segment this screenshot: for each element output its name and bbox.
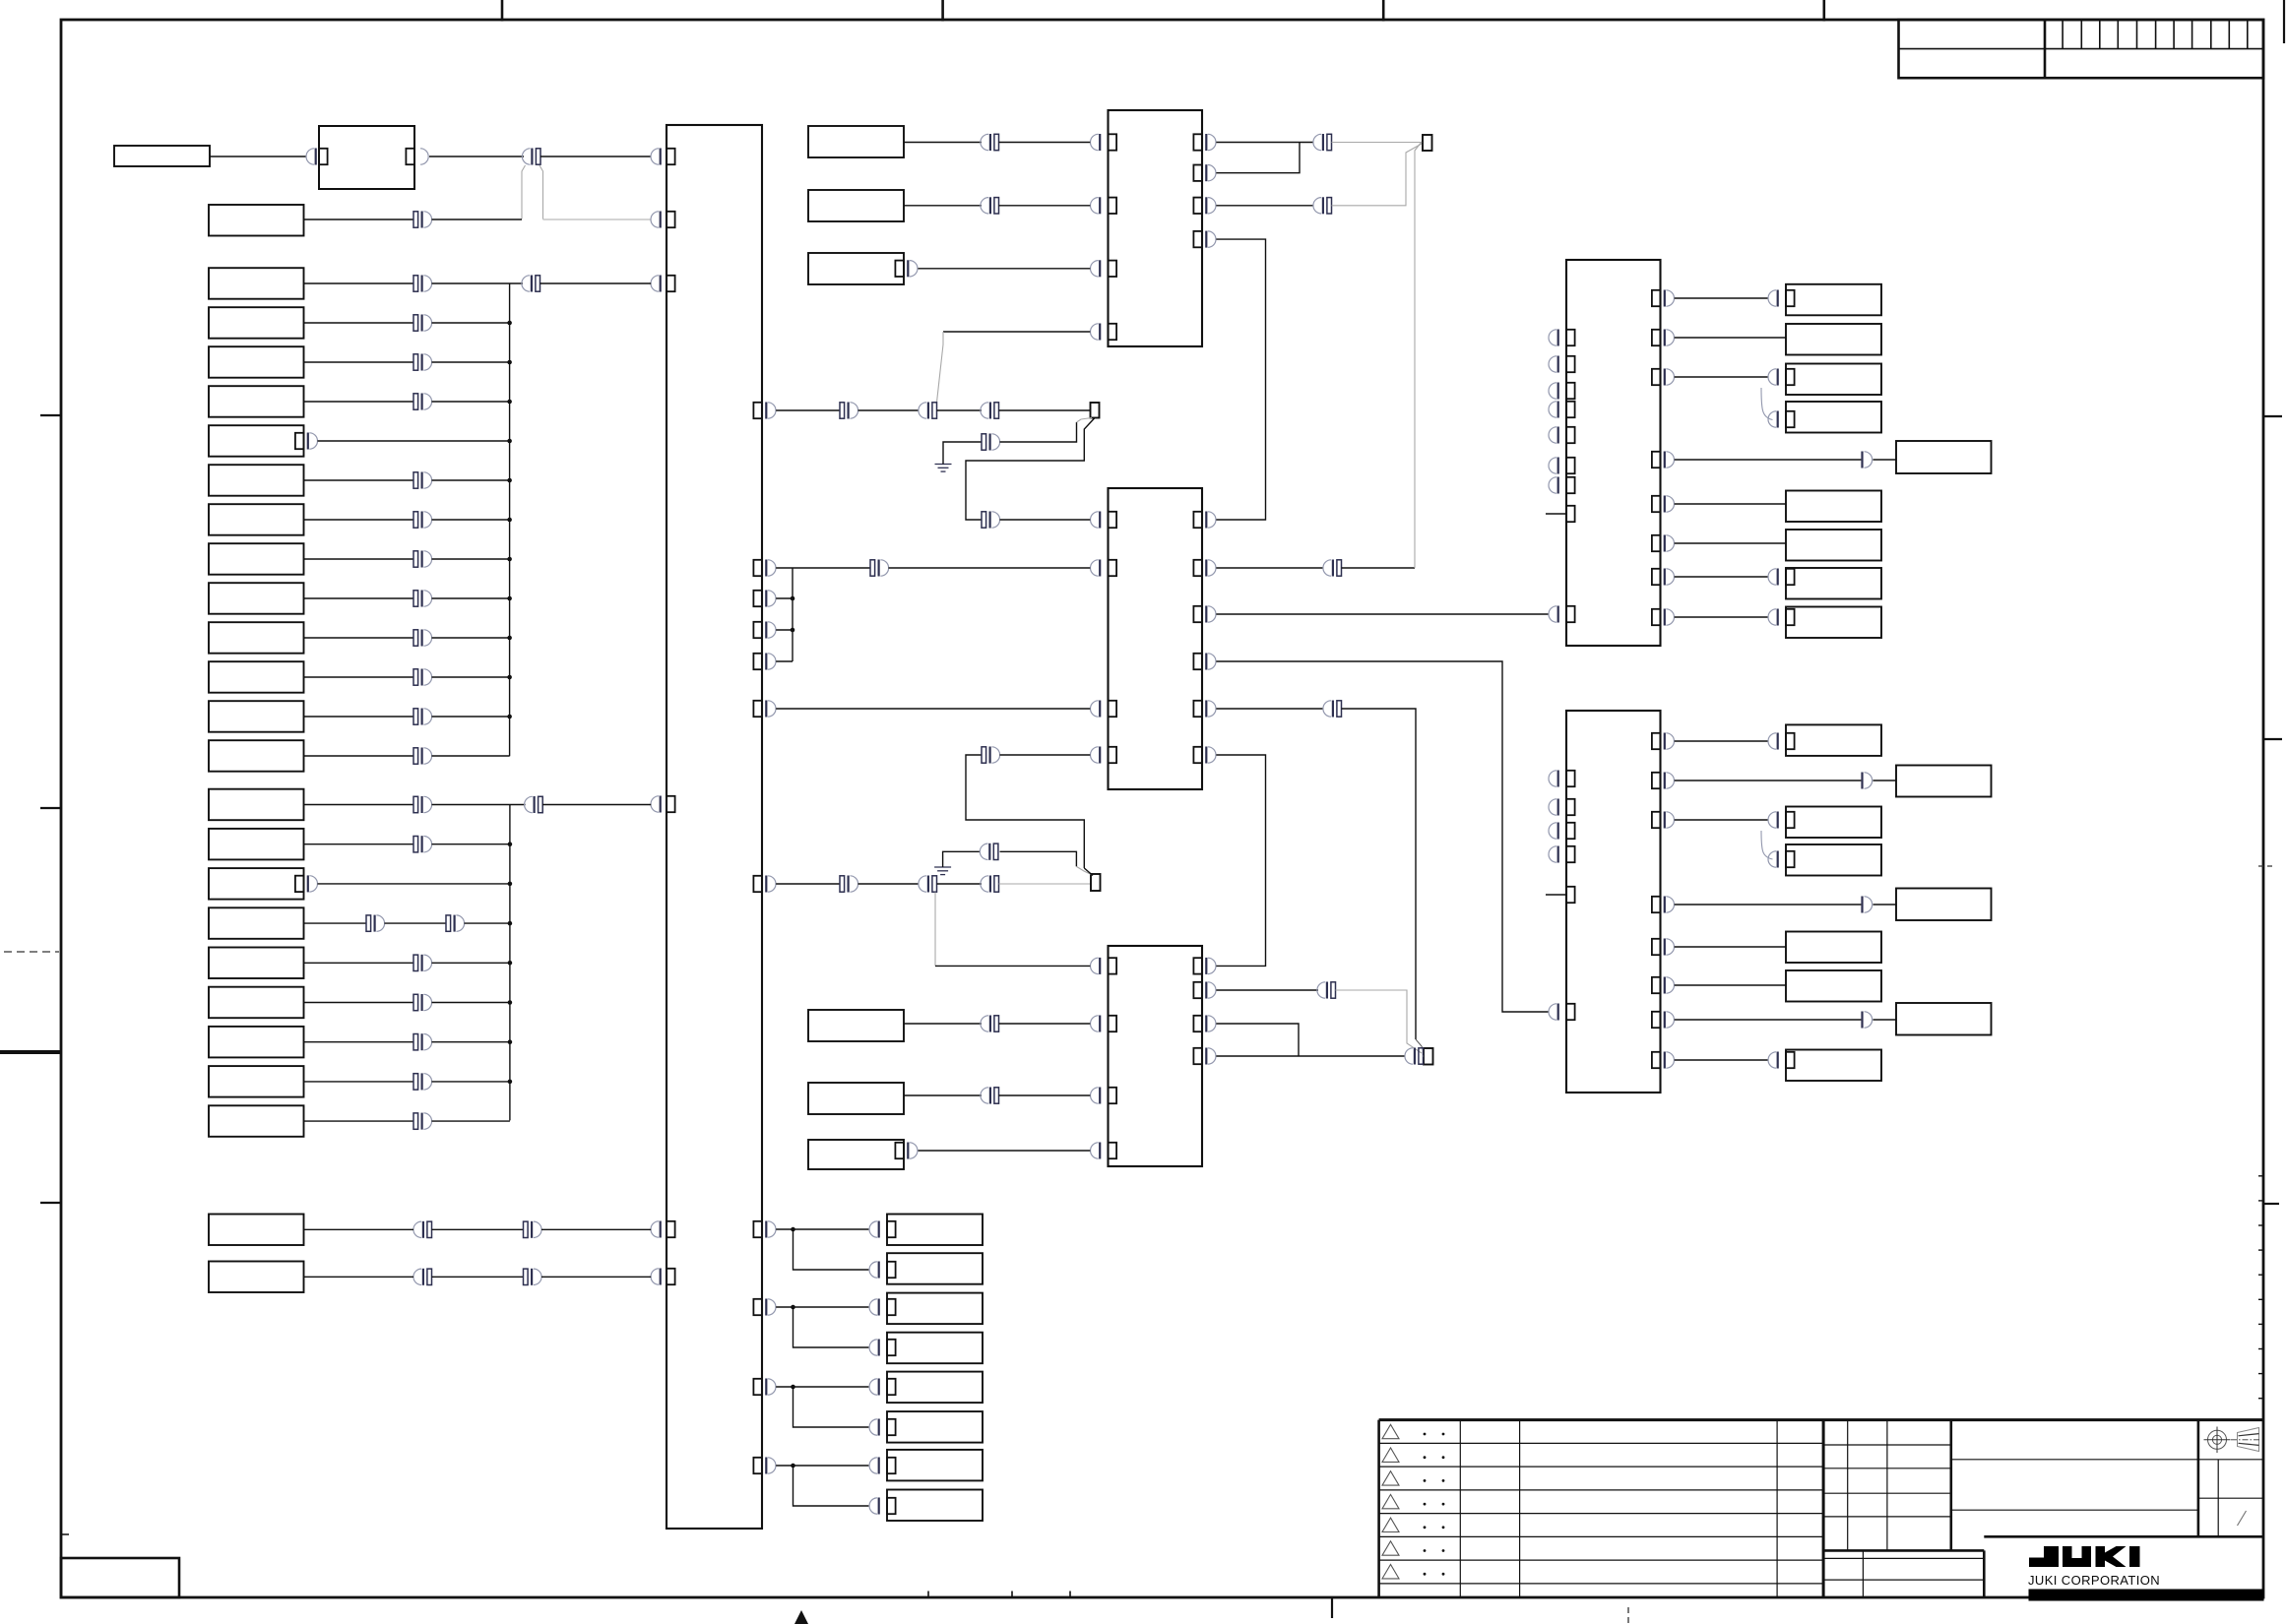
connector bar plug: [1861, 897, 1863, 913]
bus wire vertical: [509, 805, 511, 1121]
label box H9 pin: [1786, 1052, 1795, 1068]
wire gray: [1332, 144, 1423, 206]
TB1 pin right: [753, 701, 762, 717]
wire: [304, 755, 414, 757]
TB1 pin right: [753, 1221, 762, 1237]
wire: [776, 883, 840, 885]
box pin right: [295, 433, 304, 449]
U2 pin right: [1193, 747, 1202, 763]
label box K3 pin: [887, 1299, 896, 1315]
wire: [429, 156, 524, 157]
title cells row line: [1951, 1509, 2198, 1511]
junction: [791, 1227, 795, 1232]
U2 pin right: [1193, 654, 1202, 669]
U1 pin right: [1193, 198, 1202, 214]
module box M1: [319, 126, 414, 189]
label box F1: [808, 1010, 904, 1041]
branch wire: [794, 1387, 869, 1427]
branch wire: [794, 1229, 869, 1270]
label box E3: [808, 253, 904, 284]
wire: [540, 282, 652, 284]
J1 pin right: [1652, 369, 1661, 385]
TB1 pin right: [753, 1458, 762, 1473]
wire: [432, 401, 510, 403]
J2 pin right: [1652, 897, 1661, 912]
wire: [304, 637, 414, 639]
connector pair: [413, 591, 418, 606]
label box B7: [209, 504, 304, 535]
label box H7: [1786, 970, 1881, 1002]
connector plug into module: [315, 149, 317, 165]
lower mini table right edge: [1983, 1550, 1986, 1597]
connector pair: [413, 994, 418, 1010]
frame tick bottom: [1331, 1597, 1333, 1618]
frame tick top: [501, 0, 504, 22]
label box C8: [209, 1066, 304, 1097]
label box K1: [887, 1215, 983, 1246]
wire: [1342, 567, 1416, 569]
J2 pin left floating: [1566, 771, 1575, 786]
slash mark: [2238, 1511, 2247, 1526]
label box A1: [114, 146, 210, 166]
wire: [432, 755, 510, 757]
J2 pin right: [1652, 812, 1661, 828]
TB1 pin right: [753, 622, 762, 638]
label box H1: [1786, 724, 1881, 756]
connector bar plug: [1861, 1012, 1863, 1029]
label box K8 pin: [887, 1498, 896, 1514]
J1 pin right: [1652, 330, 1661, 345]
frame tick right: [2263, 1203, 2279, 1205]
wire: [1216, 142, 1313, 144]
label box E2: [808, 190, 904, 221]
wire: [1675, 503, 1786, 505]
label box C9: [209, 1105, 304, 1137]
J2 pin right: [1652, 1012, 1661, 1028]
junction: [791, 1464, 795, 1468]
label box H3 pin: [1786, 812, 1795, 828]
label box B8: [209, 543, 304, 575]
wire: [432, 1276, 524, 1278]
corner box bottom-left: [61, 1558, 179, 1597]
label box K7: [887, 1450, 983, 1481]
title block top edge: [1379, 1418, 2263, 1421]
TB1 pin left: [667, 1269, 675, 1284]
wire: [999, 1023, 1091, 1025]
U1 pin left: [1109, 198, 1117, 214]
wire: [304, 1228, 414, 1230]
wire: [999, 409, 1091, 411]
label box B3: [209, 346, 304, 378]
connector pair: [427, 1221, 432, 1237]
connector pair: [413, 669, 418, 685]
wire gray riser: [934, 893, 936, 967]
label box C5: [209, 948, 304, 979]
label box H1 pin: [1786, 733, 1795, 749]
junction: [508, 1080, 513, 1085]
connector pair: [366, 915, 371, 931]
wire: [304, 322, 414, 324]
wire: [1873, 459, 1897, 461]
J1 pin left floating: [1566, 356, 1575, 372]
junction: [508, 961, 513, 966]
junction: [507, 360, 512, 365]
U1 pin right: [1193, 231, 1202, 247]
J1 pin left floating: [1566, 477, 1575, 493]
title block divider: [1822, 1420, 1825, 1597]
junction: [507, 400, 512, 405]
wire: [776, 597, 793, 599]
label box B4: [209, 386, 304, 417]
wire: [304, 519, 414, 521]
projection symbol cone: [2231, 1428, 2261, 1452]
wire gray slant: [1076, 866, 1092, 874]
wire: [432, 479, 510, 481]
connector pair: [413, 551, 418, 567]
wire: [966, 418, 1095, 521]
connector pair: [413, 315, 418, 331]
label box H6: [1786, 932, 1881, 964]
J2 pin left wired: [1566, 1004, 1575, 1020]
wire: [1216, 143, 1300, 173]
bottom centre triangle marker: [794, 1610, 808, 1624]
paper mark right: [2283, 0, 2285, 43]
U3 pin left: [1109, 958, 1117, 973]
connector pair: [994, 1016, 999, 1031]
connector pair: [1327, 198, 1332, 214]
label box B10: [209, 622, 304, 654]
wire: [776, 660, 793, 662]
label box B11: [209, 661, 304, 693]
connector pair: [413, 955, 418, 970]
title block JUKI area top: [1984, 1535, 2263, 1538]
wire: [904, 205, 982, 207]
connector pair: [993, 843, 998, 859]
connector pair: [982, 512, 986, 528]
title cells divider: [2197, 1420, 2200, 1537]
label box K1 pin: [887, 1221, 896, 1237]
label box B6: [209, 465, 304, 496]
connector pair CN-A: [536, 149, 540, 164]
TB1 pin left: [667, 1221, 675, 1237]
connector pair: [1331, 982, 1336, 998]
wire gray vertical: [1415, 142, 1422, 568]
bus wire vertical: [792, 568, 794, 661]
label box K6 pin: [887, 1419, 896, 1435]
wire: [541, 1228, 651, 1230]
branch curve: [1761, 831, 1773, 859]
wire: [889, 567, 1091, 569]
U3 pin left: [1109, 1016, 1117, 1031]
junction: [507, 596, 512, 601]
wire: [432, 519, 510, 521]
frame tick top: [941, 0, 944, 22]
title block black bar: [2029, 1590, 2263, 1600]
F3 pin right: [895, 1143, 904, 1158]
wire: [999, 142, 1091, 144]
wire gray drop: [522, 165, 526, 219]
E3 pin right: [895, 261, 904, 277]
label box C2: [209, 829, 304, 860]
wire: [432, 1002, 510, 1004]
wire: [919, 268, 1091, 270]
JUKI logo: [2029, 1546, 2140, 1567]
label box G4 pin: [1786, 411, 1795, 427]
header row divider: [1899, 48, 2264, 50]
connector plug P2: [1424, 1048, 1433, 1065]
wire gray drop: [540, 165, 543, 219]
wire: [904, 1094, 982, 1096]
wire: [776, 1465, 868, 1467]
connector plug module output: [420, 149, 428, 164]
U1 pin right: [1193, 134, 1202, 150]
wire: [432, 1081, 510, 1083]
J2 pin right: [1652, 773, 1661, 788]
label box K4 pin: [887, 1340, 896, 1355]
wire: [776, 1386, 868, 1388]
junction: [507, 636, 512, 641]
frame tick bottom: [927, 1592, 929, 1598]
U2 pin left: [1109, 512, 1117, 528]
TB1 pin left: [667, 212, 675, 227]
wire: [304, 1120, 414, 1122]
TB1 pin right: [753, 591, 762, 606]
connector box U2: [1109, 488, 1203, 789]
frame tick top: [1382, 0, 1385, 22]
lower mini table rows: [1823, 1550, 1984, 1597]
U2 pin right: [1193, 560, 1202, 576]
revision date dots: [1424, 1433, 1445, 1576]
TB1 pin right: [753, 876, 762, 892]
revision table columns: [1460, 1420, 1777, 1597]
wire: [304, 716, 414, 718]
connector pair: [413, 276, 418, 291]
wire: [776, 409, 840, 411]
connector pair: [1327, 134, 1332, 150]
wire: [304, 361, 414, 363]
wire: [966, 755, 1084, 868]
label box B9: [209, 583, 304, 614]
junction: [508, 1039, 513, 1044]
wire: [776, 708, 1090, 710]
connector pair: [994, 134, 999, 150]
module pin left: [319, 149, 328, 164]
label box K2 pin: [887, 1262, 896, 1278]
wire: [1675, 459, 1862, 461]
wire: [1675, 337, 1786, 339]
junction: [507, 321, 512, 326]
connector pair: [982, 747, 986, 763]
label box H2 wide: [1896, 766, 1992, 797]
wire: [1873, 780, 1897, 781]
J2 pin right: [1652, 977, 1661, 993]
wire: [1084, 868, 1093, 876]
junction: [507, 715, 512, 719]
U2 pin left: [1109, 701, 1117, 717]
connector pair: [413, 354, 418, 370]
label box G6: [1786, 491, 1881, 523]
wire: [540, 156, 651, 157]
header ruled cells: [2063, 20, 2248, 49]
middle table bottom edge: [1823, 1549, 1984, 1552]
label box K5: [887, 1372, 983, 1404]
connector pair: [413, 472, 418, 488]
connector pair: [446, 915, 451, 931]
ground: [935, 464, 952, 466]
wire: [1000, 754, 1091, 756]
wire: [432, 962, 510, 964]
module pin right: [406, 149, 414, 164]
U3 pin left: [1109, 1143, 1117, 1158]
frame dashed mark bottom: [1627, 1607, 1629, 1624]
wire: [304, 922, 367, 924]
wire: [776, 567, 870, 569]
label box G2: [1786, 324, 1881, 355]
wire: [1675, 904, 1862, 906]
wire: [542, 804, 651, 806]
wire: [432, 637, 510, 639]
header block outline: [1899, 20, 2264, 78]
wire: [1216, 205, 1313, 207]
label box K5 pin: [887, 1379, 896, 1395]
J1 pin left floating: [1566, 402, 1575, 417]
connector pair: [413, 394, 418, 409]
frame dashed mark right: [2258, 865, 2275, 867]
wire gray: [1336, 990, 1423, 1053]
U3 pin right: [1193, 1048, 1202, 1064]
label box F2: [808, 1083, 904, 1114]
branch wire: [794, 1466, 869, 1506]
revision triangles: [1382, 1424, 1399, 1579]
connector pair: [524, 1221, 529, 1237]
wire: [1873, 904, 1897, 906]
junction: [508, 882, 513, 887]
frame tick top: [1823, 0, 1826, 22]
label box G9: [1786, 607, 1881, 639]
U2 pin right: [1193, 606, 1202, 622]
junction: [507, 675, 512, 680]
label box G8: [1786, 568, 1881, 599]
J1 pin right: [1652, 290, 1661, 306]
label box B1: [209, 268, 304, 299]
wire gray: [1332, 142, 1423, 144]
connector pair: [932, 403, 937, 418]
label box A2: [209, 205, 304, 236]
label box H5 wide: [1896, 889, 1992, 921]
label box K3: [887, 1293, 983, 1325]
TB1 pin right: [753, 1299, 762, 1315]
connector pair: [982, 434, 986, 450]
wire: [304, 1041, 414, 1043]
wire: [304, 843, 414, 845]
connector bar plug: [1861, 773, 1863, 789]
middle table right edge: [1950, 1420, 1953, 1551]
bus wire vertical: [509, 283, 511, 756]
U1 pin left: [1109, 324, 1117, 340]
junction: [791, 1305, 795, 1310]
connector pair: [413, 630, 418, 646]
label box C4: [209, 907, 304, 939]
wire: [432, 322, 510, 324]
connector pair: [1419, 1048, 1424, 1064]
connector box J2: [1566, 711, 1661, 1093]
J1 pin right: [1652, 569, 1661, 585]
label box G1 pin: [1786, 290, 1795, 306]
wire gray: [543, 219, 652, 220]
wire: [858, 409, 919, 411]
connector pair: [413, 1074, 418, 1090]
wire: [304, 479, 414, 481]
J2 pin left floating: [1566, 823, 1575, 839]
wire: [776, 629, 793, 631]
connector pair: [413, 212, 418, 227]
U1 pin left: [1109, 261, 1117, 277]
middle table columns: [1848, 1420, 1887, 1551]
label box F3: [808, 1140, 904, 1169]
frame tick left: [40, 414, 61, 416]
label box H4 pin: [1786, 851, 1795, 867]
connector pair: [413, 512, 418, 528]
wire: [943, 331, 1090, 333]
frame tick left: [40, 807, 61, 809]
label box H4: [1786, 844, 1881, 876]
wire: [304, 962, 414, 964]
TB1 pin left: [667, 149, 675, 164]
connector box U3: [1109, 946, 1203, 1166]
wire: [1216, 661, 1548, 1012]
wire: [1675, 376, 1768, 378]
revision table rows: [1379, 1443, 1824, 1584]
label box G9 pin: [1786, 609, 1795, 625]
title cells vertical: [2217, 1460, 2219, 1537]
label box K7 pin: [887, 1458, 896, 1473]
connector pair: [413, 796, 418, 812]
J1 pin right: [1652, 609, 1661, 625]
wire: [1675, 1019, 1862, 1021]
U2 pin left: [1109, 747, 1117, 763]
connector pair: [840, 876, 845, 892]
wire: [432, 804, 526, 806]
J2 pin stub: [1566, 887, 1575, 903]
wire: [318, 883, 510, 885]
wire: [776, 1228, 868, 1230]
wire: [304, 1081, 414, 1083]
connector pair: [413, 709, 418, 724]
ground: [934, 866, 951, 868]
frame tick left: [40, 1202, 61, 1204]
frame tick left small: [61, 1533, 69, 1535]
connector pair: [932, 876, 937, 892]
label box H3: [1786, 807, 1881, 839]
wire: [385, 922, 447, 924]
TB1 pin right: [753, 654, 762, 669]
U3 pin right: [1193, 982, 1202, 998]
wire: [1216, 1024, 1299, 1056]
wire: [1216, 239, 1265, 520]
svg-text:JUKI CORPORATION: JUKI CORPORATION: [2028, 1573, 2160, 1588]
connector pair: [840, 403, 845, 418]
connector pair: [413, 1034, 418, 1050]
label box G3: [1786, 364, 1881, 396]
label box C7: [209, 1027, 304, 1058]
label box E1: [808, 126, 904, 157]
label box B13: [209, 740, 304, 772]
label box C1: [209, 789, 304, 821]
wire: [432, 361, 510, 363]
wire: [1675, 616, 1768, 618]
J1 pin left floating: [1566, 383, 1575, 399]
title icon cell row line: [2198, 1497, 2263, 1499]
